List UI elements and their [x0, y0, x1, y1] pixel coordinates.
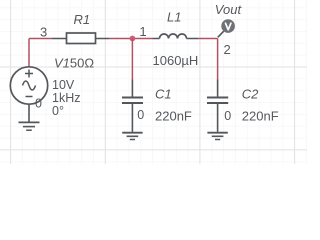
svg-text:C1: C1: [155, 86, 172, 101]
svg-text:0: 0: [137, 108, 144, 122]
value 220nF (C1): [155, 109, 192, 124]
svg-text:1060µH: 1060µH: [153, 53, 199, 68]
wire: [131, 39, 133, 80]
svg-text:0: 0: [35, 97, 42, 111]
node 0 label (source): [35, 97, 42, 111]
wire: [29, 38, 52, 40]
voltage source V1: [10, 67, 47, 104]
ground (C1): [122, 133, 142, 140]
voltage probe V: [221, 19, 235, 33]
value 1060µH: [153, 53, 199, 68]
svg-text:R1: R1: [74, 12, 91, 27]
ground (C2): [207, 133, 227, 140]
svg-text:2: 2: [224, 42, 231, 57]
ground (source): [19, 104, 40, 130]
label V1 and value 50Ω: [54, 55, 94, 70]
capacitor C1: [122, 80, 143, 132]
svg-text:1kHz: 1kHz: [52, 91, 80, 105]
label C1: [155, 86, 172, 101]
wire: [109, 38, 153, 40]
node 0 label (C2): [224, 109, 231, 123]
node 3: [40, 25, 47, 40]
probe stem: [218, 31, 224, 37]
node 1 label: [139, 24, 146, 39]
node 2 label: [224, 42, 231, 57]
svg-text:C2: C2: [242, 86, 259, 101]
svg-text:10V: 10V: [52, 78, 75, 92]
svg-text:220nF: 220nF: [242, 109, 279, 124]
wire: [217, 39, 219, 80]
probe Vout label: [215, 2, 243, 17]
svg-text:220nF: 220nF: [155, 109, 192, 124]
resistor R1: [52, 33, 109, 44]
svg-text:3: 3: [40, 25, 47, 40]
svg-text:L1: L1: [167, 9, 181, 24]
capacitor C2: [207, 80, 228, 132]
node 1 junction: [130, 36, 136, 42]
value 220nF (C2): [242, 109, 279, 124]
source values 10V 1kHz 0°: [52, 78, 80, 118]
wire: [28, 39, 30, 68]
label C2: [242, 86, 259, 101]
label R1: [74, 12, 91, 27]
wire: [198, 38, 218, 40]
svg-text:0: 0: [224, 109, 231, 123]
svg-text:V150Ω: V150Ω: [54, 55, 94, 70]
svg-text:0°: 0°: [52, 104, 64, 118]
label L1: [167, 9, 181, 24]
svg-text:1: 1: [139, 24, 146, 39]
inductor L1: [153, 34, 199, 39]
svg-text:Vout: Vout: [215, 2, 243, 17]
node 0 label (C1): [137, 108, 144, 122]
